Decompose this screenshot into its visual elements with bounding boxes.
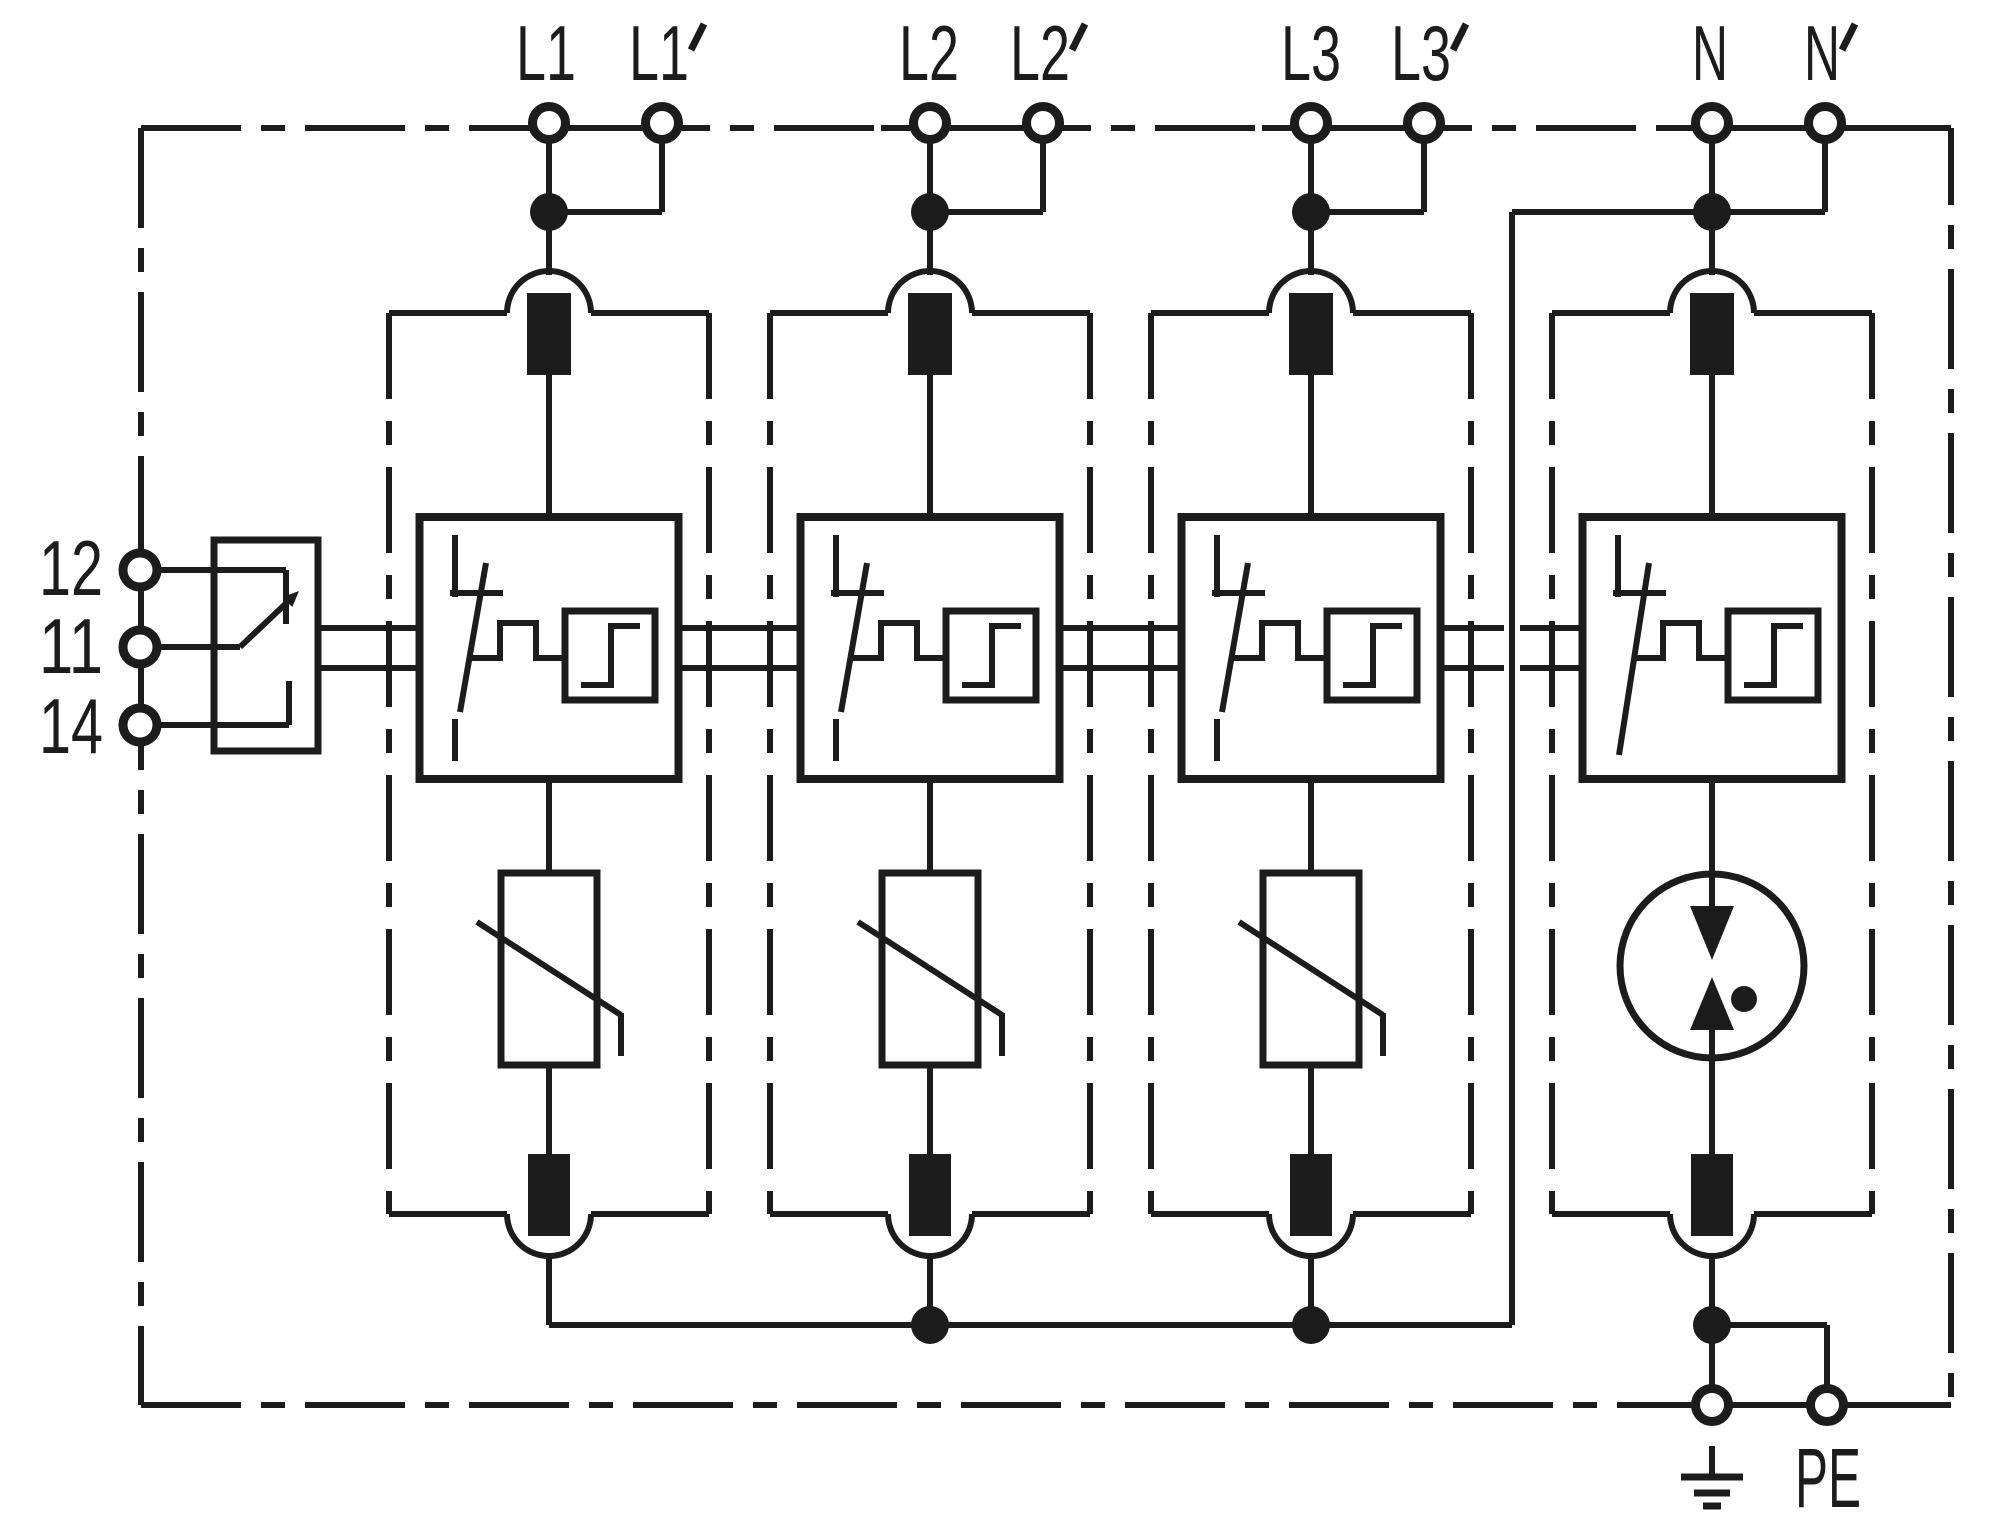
svg-text:PE: PE [1795, 1431, 1861, 1520]
svg-text:N: N [1804, 9, 1840, 97]
svg-text:14: 14 [39, 682, 103, 770]
svg-text:L2: L2 [1010, 9, 1070, 97]
svg-text:11: 11 [39, 602, 103, 690]
svg-text:N: N [1692, 9, 1728, 97]
svg-text:L3: L3 [1391, 9, 1451, 97]
svg-text:12: 12 [39, 524, 103, 612]
svg-text:L2: L2 [899, 9, 959, 97]
svg-text:L3: L3 [1281, 9, 1341, 97]
svg-text:L1: L1 [516, 9, 576, 97]
svg-text:L1: L1 [629, 9, 689, 97]
